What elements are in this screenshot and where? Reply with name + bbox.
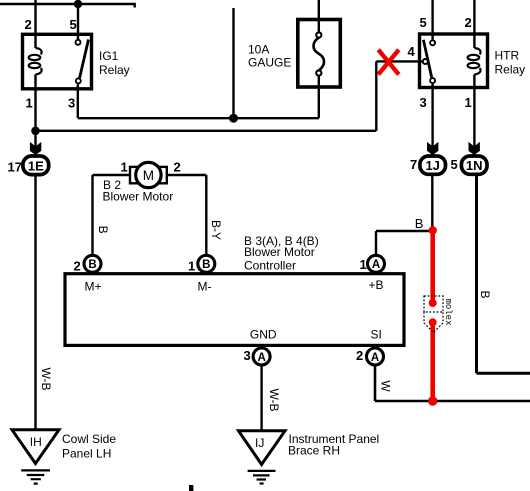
svg-text:GAUGE: GAUGE — [248, 56, 291, 70]
svg-text:B: B — [88, 259, 96, 271]
svg-text:3: 3 — [68, 96, 75, 111]
svg-text:7: 7 — [410, 157, 417, 172]
svg-text:Blower Motor: Blower Motor — [103, 190, 174, 204]
svg-text:M-: M- — [198, 280, 212, 294]
svg-text:W-B: W-B — [39, 367, 53, 390]
svg-text:2: 2 — [356, 348, 363, 363]
svg-text:B-Y: B-Y — [209, 220, 223, 240]
svg-text:Relay: Relay — [495, 63, 526, 77]
svg-text:4: 4 — [408, 44, 416, 59]
svg-text:+B: +B — [369, 278, 384, 292]
svg-text:1N: 1N — [466, 158, 483, 173]
svg-text:SI: SI — [371, 328, 382, 342]
svg-text:17: 17 — [8, 160, 22, 175]
svg-text:5: 5 — [451, 157, 458, 172]
svg-text:molex: molex — [443, 298, 453, 325]
svg-text:10A: 10A — [248, 42, 269, 56]
svg-text:M+: M+ — [85, 280, 102, 294]
svg-text:3: 3 — [420, 95, 427, 110]
svg-text:IG1: IG1 — [99, 49, 119, 63]
svg-text:1: 1 — [26, 96, 33, 111]
svg-text:A: A — [371, 352, 379, 364]
svg-text:W: W — [379, 380, 393, 392]
svg-text:3: 3 — [244, 348, 251, 363]
svg-text:2: 2 — [74, 259, 81, 274]
svg-text:Relay: Relay — [99, 63, 130, 77]
svg-text:1J: 1J — [425, 158, 439, 173]
svg-text:5: 5 — [70, 17, 77, 32]
svg-text:IJ: IJ — [255, 436, 264, 450]
svg-text:2: 2 — [465, 15, 472, 30]
svg-text:GND: GND — [250, 328, 277, 342]
svg-text:B: B — [202, 259, 210, 271]
svg-text:Panel LH: Panel LH — [62, 447, 111, 461]
svg-text:2: 2 — [25, 17, 32, 32]
svg-text:1: 1 — [121, 160, 128, 175]
svg-text:B: B — [415, 216, 424, 231]
svg-text:IH: IH — [30, 435, 42, 449]
svg-text:Controller: Controller — [244, 259, 296, 273]
svg-text:1: 1 — [465, 95, 472, 110]
svg-text:Cowl Side: Cowl Side — [62, 432, 116, 446]
svg-text:1: 1 — [188, 259, 195, 274]
svg-text:5: 5 — [420, 15, 427, 30]
svg-text:A: A — [372, 259, 380, 271]
svg-text:Brace RH: Brace RH — [288, 443, 340, 457]
svg-text:B: B — [96, 226, 110, 234]
svg-text:M: M — [143, 168, 154, 183]
svg-text:1E: 1E — [28, 159, 44, 174]
svg-text:B: B — [478, 290, 492, 298]
svg-text:2: 2 — [174, 160, 181, 175]
svg-text:A: A — [257, 352, 265, 364]
svg-text:W-B: W-B — [267, 388, 281, 411]
svg-text:Blower Motor: Blower Motor — [244, 245, 315, 259]
svg-text:1: 1 — [360, 257, 367, 272]
svg-text:HTR: HTR — [495, 49, 520, 63]
